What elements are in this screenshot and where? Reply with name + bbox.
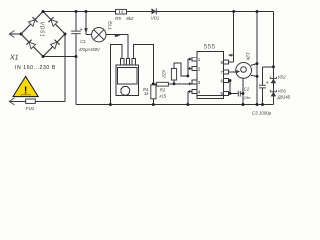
svg-text:R2: R2	[160, 88, 166, 93]
capacitor C1	[71, 31, 81, 33]
pin boxes left	[192, 57, 197, 93]
warning triangle	[13, 76, 38, 96]
wire bottom rail	[76, 104, 273, 106]
svg-text:7: 7	[220, 70, 223, 75]
IC 555 body	[197, 52, 224, 99]
wire fuse line bottom left	[9, 100, 65, 102]
wire transistor top-right lead	[251, 64, 257, 66]
pin arrows left	[189, 58, 192, 94]
zener VD2	[271, 79, 277, 84]
capacitor C2	[238, 91, 240, 97]
wire bus x=257	[256, 12, 258, 105]
svg-text:C3 1000µ: C3 1000µ	[252, 111, 272, 116]
resistor R3	[171, 69, 176, 81]
wire right edge down (zener column)	[272, 12, 274, 105]
wire top rail	[43, 11, 273, 13]
diode VD1	[152, 8, 157, 14]
wire AC2 from bridge right vertex down	[64, 34, 66, 101]
transistor package (TO-220)	[116, 59, 139, 96]
diode bridge arm bottom-left	[26, 40, 35, 49]
svg-text:FU1: FU1	[26, 106, 35, 111]
transistor VT in circle	[236, 63, 252, 79]
svg-text:8: 8	[220, 60, 223, 65]
svg-text:6: 6	[220, 78, 223, 83]
capacitor C3	[259, 85, 266, 88]
svg-text:VD1: VD1	[151, 16, 160, 21]
svg-text:VD2: VD2	[278, 74, 287, 79]
wire C1 vertical	[75, 12, 77, 105]
pin boxes right	[224, 60, 229, 95]
wire pin7 stub to transistor	[229, 71, 237, 73]
diode bridge arm top-left	[29, 17, 38, 26]
svg-text:+: +	[80, 27, 83, 33]
arrow into pin8 corner	[229, 54, 232, 57]
svg-text:VD3: VD3	[278, 89, 287, 94]
svg-text:470µ×350V: 470µ×350V	[79, 47, 101, 52]
svg-text:4: 4	[198, 90, 201, 95]
svg-text:R5: R5	[115, 16, 121, 21]
wire transistor bottom lead to rail	[242, 78, 244, 104]
wire R2 horizontal line to pin3	[153, 83, 189, 85]
svg-text:3: 3	[198, 80, 201, 85]
wire lamp right with corner down to leg2	[106, 35, 128, 59]
wire pin1 pin2 tie vertical	[188, 59, 192, 76]
wire C3 vertical and jog to zener column	[263, 67, 274, 105]
wire R3 bottom lead	[173, 80, 175, 84]
X1 plug arrow bottom	[9, 98, 14, 105]
svg-text:12k: 12k	[244, 52, 250, 60]
svg-text:IN 160...230 В: IN 160...230 В	[15, 65, 56, 71]
wire transistor bottom-right lead	[251, 74, 257, 77]
wire leg1 jog to rail	[110, 45, 122, 105]
arrow right on lamp output	[115, 34, 121, 37]
wire R4 bottom to rail	[152, 99, 154, 105]
zener VD3	[271, 92, 277, 97]
svg-text:VDS1: VDS1	[39, 22, 45, 37]
wire pin8 drop from top rail	[229, 12, 234, 63]
resistor R2	[157, 82, 169, 86]
resistor R5	[116, 9, 127, 14]
diode bridge arm top-right	[48, 17, 57, 26]
pin digits left	[198, 57, 201, 94]
fuse FU1	[26, 99, 36, 103]
wire pin6 pin5 tie	[229, 81, 231, 94]
svg-text:к22: к22	[160, 70, 166, 78]
arrow down on lamp branch	[84, 28, 87, 34]
X1 plug arrow top	[9, 31, 14, 38]
wire pin5 to C2	[230, 92, 243, 94]
lamp EL1	[92, 28, 106, 42]
wire pin8 stub	[229, 61, 234, 63]
wire pin3 stub	[189, 83, 192, 85]
svg-text:X1: X1	[9, 54, 19, 61]
svg-text:к15: к15	[160, 94, 167, 99]
svg-text:EL1: EL1	[107, 21, 113, 30]
wire bridge minus to C1 node	[43, 56, 76, 58]
svg-text:1k: 1k	[144, 91, 149, 96]
wire lamp branch vertical	[86, 12, 92, 35]
svg-text:555: 555	[204, 44, 216, 51]
wire R3 top jog	[174, 63, 188, 76]
svg-text:19н: 19н	[244, 95, 251, 100]
svg-text:Д814Б: Д814Б	[277, 94, 291, 99]
svg-text:8k2: 8k2	[126, 16, 134, 21]
svg-text:C1: C1	[80, 39, 86, 44]
resistor R4	[151, 85, 156, 99]
bridge VDS1 diamond	[21, 12, 65, 57]
wire pin4 to rail	[188, 92, 192, 105]
svg-text:C2: C2	[244, 86, 250, 91]
svg-text:1: 1	[198, 57, 201, 62]
pin digits right	[220, 60, 223, 96]
wire X1 pin1	[9, 33, 21, 35]
wire leg3 jog right and down	[134, 45, 154, 85]
svg-text:5: 5	[220, 91, 223, 96]
svg-text:2: 2	[198, 67, 201, 72]
svg-text:+: +	[266, 80, 269, 86]
diode bridge arm bottom-right	[51, 40, 60, 49]
